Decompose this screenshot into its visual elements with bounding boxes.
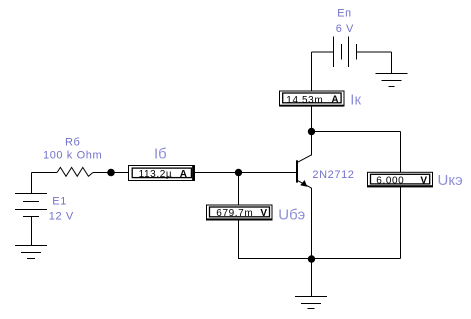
node base junction dot (resistor/ammeter)	[107, 169, 115, 177]
wire battery En left to ammeter Ik	[312, 52, 334, 91]
wire voltmeter Ube bottom down	[238, 220, 240, 259]
battery En	[334, 37, 357, 68]
svg-text:2N2712: 2N2712	[312, 169, 354, 181]
wire battery E1 top to resistor	[32, 173, 58, 194]
svg-text:Iб: Iб	[154, 145, 167, 162]
wire ammeter Ib to base node	[195, 172, 239, 174]
ground at battery E1	[15, 246, 47, 259]
svg-text:E1: E1	[52, 196, 67, 208]
wire battery E1 bottom to ground	[31, 216, 33, 245]
svg-text:Iк: Iк	[350, 91, 361, 108]
node collector junction dot	[308, 128, 315, 135]
svg-text:V: V	[420, 175, 427, 186]
ground at battery En	[375, 74, 407, 87]
wire emitter lead	[311, 188, 313, 259]
svg-text:100 k Ohm: 100 k Ohm	[43, 150, 102, 162]
ammeter Ib	[129, 166, 195, 181]
node emitter junction dot	[308, 255, 315, 262]
ammeter Ik	[280, 91, 345, 107]
svg-text:14.53m: 14.53m	[286, 95, 323, 106]
svg-text:113.2µ: 113.2µ	[139, 169, 173, 180]
wire base node to transistor base	[239, 172, 297, 174]
wire collector lead	[311, 132, 313, 156]
svg-text:V: V	[260, 208, 267, 219]
wire voltmeter Uke bottom down	[400, 187, 402, 259]
ground at emitter	[295, 297, 327, 309]
resistor Rb	[57, 167, 93, 176]
voltmeter Uke	[368, 172, 433, 187]
battery E1	[15, 194, 47, 217]
svg-text:12 V: 12 V	[49, 210, 74, 222]
wire ammeter Ik bottom to collector node	[311, 107, 313, 132]
svg-text:A: A	[331, 94, 338, 105]
voltmeter Ube	[207, 205, 273, 220]
wire resistor to ammeter Ib	[93, 172, 128, 174]
svg-text:Uкэ: Uкэ	[438, 172, 464, 189]
svg-text:Rб: Rб	[65, 137, 80, 149]
svg-text:A: A	[180, 169, 187, 180]
wire emitter node to ground	[311, 259, 313, 296]
node base junction dot (base/Ube)	[235, 169, 242, 176]
svg-text:Eп: Eп	[337, 8, 352, 20]
svg-text:6.000: 6.000	[376, 175, 404, 186]
transistor Q1 2N2712	[296, 155, 312, 188]
wire base node down to voltmeter Ube	[238, 173, 240, 206]
svg-text:6 V: 6 V	[336, 23, 354, 35]
svg-text:Uбэ: Uбэ	[278, 207, 305, 224]
svg-text:679.7m: 679.7m	[216, 208, 253, 219]
wire bottom rail	[239, 258, 401, 260]
wire collector node to voltmeter Uke	[312, 132, 401, 173]
wire battery En right to ground	[356, 52, 392, 73]
